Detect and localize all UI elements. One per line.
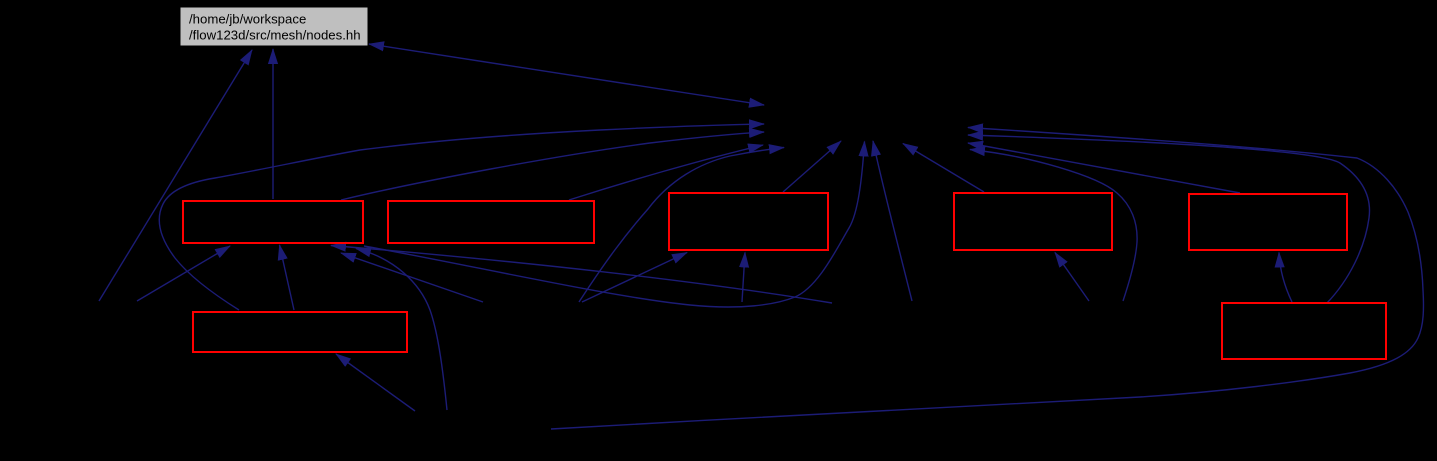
wire B5 to node A — [968, 143, 1240, 193]
wire B1 to node A big U curve — [364, 142, 865, 308]
wire B1 to node A — [341, 132, 764, 200]
wire B7 to B5 — [1279, 253, 1292, 303]
wire N3 to B3 — [742, 253, 745, 303]
node B5 red box — [1189, 194, 1347, 250]
wire M to node A long outer curve — [551, 128, 1423, 430]
wire P to B1 — [331, 246, 832, 304]
wire R2 to node A curve around B4 right — [970, 150, 1137, 302]
wire B4 to node A — [903, 144, 984, 193]
wire B1 to grey box — [272, 49, 274, 199]
wire M to B6 — [336, 354, 415, 411]
wire grey box and node A double arrow — [369, 44, 764, 105]
node B2 red box — [388, 201, 594, 243]
node B1 red box — [183, 201, 363, 243]
node B3 red box — [669, 193, 828, 250]
wire N2 to B3 — [582, 253, 687, 303]
node B6 red box — [193, 312, 407, 352]
wire B6 to B1 — [280, 245, 295, 310]
wire B2 to node A — [569, 145, 763, 200]
wire B3 to node A — [783, 141, 841, 192]
wire L to grey box — [99, 50, 252, 301]
svg-text:/flow123d/src/mesh/nodes.hh: /flow123d/src/mesh/nodes.hh — [189, 28, 361, 43]
wire Q to node A — [873, 141, 912, 301]
wire B6 to node A curve around B1 — [159, 124, 764, 310]
wire N1 to B1 — [341, 253, 483, 302]
wire L to B1 — [137, 246, 230, 301]
node B4 red box — [954, 193, 1112, 250]
wire M to B1 curve — [356, 249, 447, 411]
node B7 red box — [1222, 303, 1386, 359]
wire B7 to node A curve around B5 — [968, 135, 1370, 303]
svg-text:/home/jb/workspace: /home/jb/workspace — [189, 12, 306, 27]
grey root node /home/jb/workspace /flow123d/src/mesh/nodes.hh — [180, 7, 368, 46]
wire N2 to node A — [579, 148, 784, 303]
wire R1 to B4 — [1055, 253, 1089, 302]
